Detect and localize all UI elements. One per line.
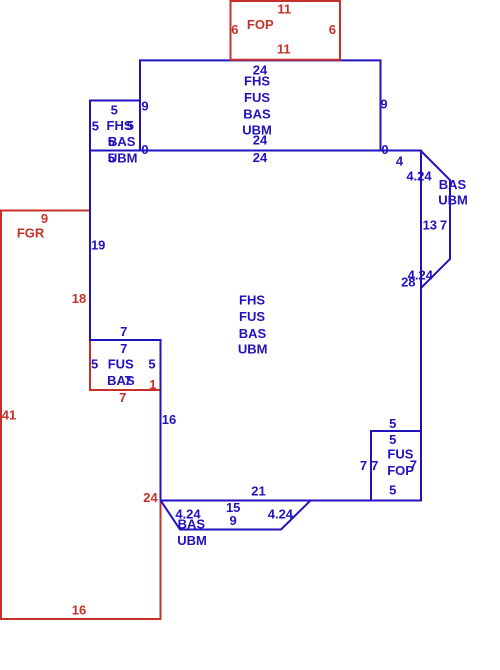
svg-text:4.24: 4.24 [268,507,294,522]
svg-text:19: 19 [91,238,105,253]
svg-text:9: 9 [141,99,148,114]
svg-text:4.24: 4.24 [406,169,432,184]
svg-text:5: 5 [108,134,115,149]
blue long horizontal y=150 [90,150,421,152]
svg-text:4: 4 [396,154,404,169]
svg-text:7: 7 [440,218,447,233]
svg-text:7: 7 [120,324,127,339]
svg-text:9: 9 [380,97,387,112]
blue left edge + notch + lower-left + bottom [90,150,421,501]
svg-text:FOP: FOP [247,17,274,32]
svg-text:5: 5 [127,118,134,133]
svg-text:UBM: UBM [238,342,268,357]
svg-text:7: 7 [124,373,131,388]
svg-text:24: 24 [253,150,268,165]
svg-text:6: 6 [329,22,336,37]
blue top room [140,60,381,150]
svg-text:BAS: BAS [439,177,467,192]
svg-text:UBM: UBM [438,192,468,207]
svg-text:41: 41 [2,408,16,423]
svg-text:FUS: FUS [244,90,270,105]
svg-text:FUS: FUS [239,309,265,324]
svg-text:9: 9 [229,513,236,528]
svg-text:FHS: FHS [239,293,265,308]
svg-text:BAS: BAS [178,517,206,532]
red FGR outline [1,211,161,620]
svg-text:16: 16 [72,603,86,618]
svg-text:FOP: FOP [387,463,414,478]
svg-text:6: 6 [231,22,238,37]
svg-text:7: 7 [120,341,127,356]
svg-text:5: 5 [389,416,396,431]
blue FUS FOP room [371,431,421,501]
svg-text:24: 24 [253,133,268,148]
svg-text:FHS: FHS [244,74,270,89]
svg-text:13: 13 [423,218,437,233]
blue trapezoid [161,501,310,530]
svg-text:11: 11 [277,42,291,57]
svg-text:18: 18 [72,291,86,306]
svg-text:28: 28 [401,275,415,290]
svg-text:UBM: UBM [177,533,207,548]
svg-text:11: 11 [277,1,291,16]
blue small top-left rect [90,101,140,151]
svg-text:7: 7 [360,458,367,473]
svg-text:5: 5 [108,151,115,166]
svg-text:7: 7 [119,390,126,405]
svg-text:7: 7 [371,458,378,473]
svg-text:BAS: BAS [243,107,271,122]
svg-text:9: 9 [41,211,48,226]
svg-text:FGR: FGR [17,226,45,241]
svg-text:1: 1 [149,377,156,392]
svg-text:16: 16 [162,412,176,427]
svg-text:FUS: FUS [108,357,134,372]
svg-text:BAS: BAS [239,326,267,341]
svg-text:5: 5 [389,432,396,447]
blue right edge [420,151,422,501]
svg-text:5: 5 [389,483,396,498]
svg-text:5: 5 [111,103,118,118]
svg-text:0: 0 [141,142,148,157]
svg-text:0: 0 [381,142,388,157]
red FOP rect [231,1,341,60]
svg-text:5: 5 [91,357,98,372]
svg-text:5: 5 [148,357,155,372]
svg-text:21: 21 [251,484,265,499]
svg-text:5: 5 [92,119,99,134]
svg-text:24: 24 [143,490,158,505]
blue right bump [421,151,450,288]
